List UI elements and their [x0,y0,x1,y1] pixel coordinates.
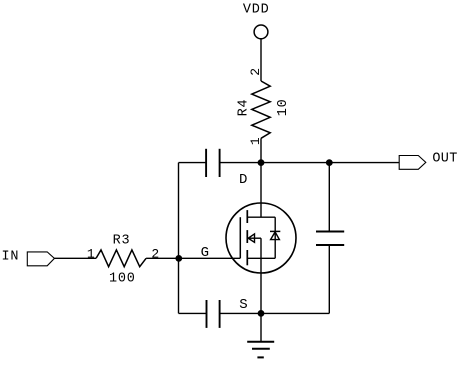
svg-text:2: 2 [151,247,159,262]
capacitor C bottom-left plate 1 [206,300,208,328]
MOSFET body diode vertical [274,217,276,258]
capacitor C top-left plate 2 [219,149,221,177]
wire bottom rail to right corner [220,312,330,314]
wire gate junction to MOSFET gate [179,257,241,259]
MOSFET gate plate [239,217,241,258]
MOSFET body to source vertical [260,238,262,258]
wire right rail lower segment [328,245,330,313]
MOSFET source arrow [248,234,254,242]
wire top rail: capacitor to drain node to right node [220,162,330,164]
wire left rail vertical [178,163,180,314]
capacitor C right plate 1 [316,231,344,233]
IN terminal flag [27,252,54,266]
svg-text:IN: IN [1,250,19,265]
junction source node [258,310,265,317]
wire IN terminal to R3 pin 1 [54,257,96,259]
svg-text:G: G [201,245,209,261]
svg-text:D: D [239,172,247,188]
resistor R4 [252,81,270,138]
capacitor C top-left plate 1 [205,149,207,177]
body diode triangle [271,232,280,240]
svg-text:100: 100 [109,272,136,287]
power terminal VDD circle [254,25,268,39]
svg-text:2: 2 [248,68,263,76]
wire bottom-left rail segment [179,312,207,314]
wire R3 pin 2 to gate junction [146,257,178,259]
svg-text:VDD: VDD [243,3,270,18]
capacitor C right plate 2 [316,244,344,246]
MOSFET channel segment top [246,210,248,223]
svg-text:OUT: OUT [432,152,457,167]
body diode cathode bar [270,230,280,232]
wire right node to OUT terminal [329,162,399,164]
wire right rail upper segment [328,163,330,232]
svg-text:R4: R4 [236,99,251,117]
junction right node [326,159,333,166]
svg-text:S: S [239,297,247,313]
junction drain node [258,159,265,166]
ground bar 3 [257,356,263,358]
ground bar 1 [247,341,274,343]
wire VDD terminal to R4 pin 2 [260,39,262,81]
MOSFET channel segment bottom [246,250,248,265]
wire R4 pin 1 to drain node and MOSFET drain [260,138,262,217]
ground bar 2 [252,348,270,350]
OUT terminal flag [399,156,426,170]
wire top-left corner segment [179,162,207,164]
svg-text:10: 10 [276,98,291,116]
MOSFET Q1 body circle [226,203,296,273]
MOSFET body stub with arrow line [248,237,261,239]
svg-text:1: 1 [87,247,95,262]
resistor R3 [96,250,146,267]
capacitor C bottom-left plate 2 [219,300,221,328]
junction gate node [175,255,182,262]
ground stem [260,313,262,341]
MOSFET source stub [247,257,275,259]
svg-text:R3: R3 [113,234,131,249]
wire MOSFET source to source node [260,258,262,313]
MOSFET channel segment middle [246,230,248,243]
MOSFET drain stub [247,216,275,218]
